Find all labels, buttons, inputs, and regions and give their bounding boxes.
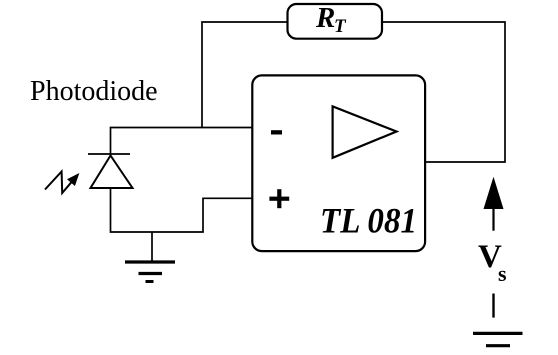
svg-text:T: T (334, 16, 347, 37)
svg-text:Photodiode: Photodiode (30, 76, 158, 107)
svg-text:s: s (498, 261, 507, 286)
svg-text:TL 081: TL 081 (320, 201, 417, 241)
svg-text:R: R (315, 2, 335, 34)
